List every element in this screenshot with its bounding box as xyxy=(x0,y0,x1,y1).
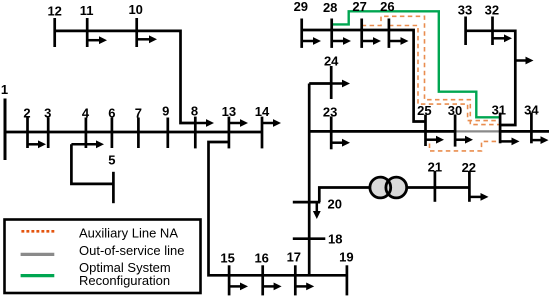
svg-text:19: 19 xyxy=(339,250,353,265)
svg-text:Out-of-service line: Out-of-service line xyxy=(79,243,184,258)
svg-text:Auxiliary Line NA: Auxiliary Line NA xyxy=(79,226,178,241)
svg-text:3: 3 xyxy=(44,106,51,121)
svg-text:33: 33 xyxy=(458,3,472,18)
svg-text:11: 11 xyxy=(80,3,94,18)
svg-text:18: 18 xyxy=(328,232,342,247)
svg-text:29: 29 xyxy=(294,0,308,14)
svg-text:7: 7 xyxy=(135,106,142,121)
svg-text:27: 27 xyxy=(352,0,366,14)
svg-text:31: 31 xyxy=(492,103,506,118)
svg-text:26: 26 xyxy=(380,0,394,14)
svg-text:1: 1 xyxy=(1,82,8,97)
svg-text:13: 13 xyxy=(222,104,236,119)
svg-text:20: 20 xyxy=(328,196,342,211)
svg-text:9: 9 xyxy=(162,104,169,119)
svg-text:Reconfiguration: Reconfiguration xyxy=(79,273,170,288)
svg-text:32: 32 xyxy=(485,3,499,18)
svg-text:21: 21 xyxy=(428,160,442,175)
svg-text:15: 15 xyxy=(220,251,234,266)
svg-text:4: 4 xyxy=(82,106,90,121)
svg-text:28: 28 xyxy=(323,0,337,15)
svg-text:22: 22 xyxy=(462,160,476,175)
svg-text:25: 25 xyxy=(417,103,431,118)
svg-text:5: 5 xyxy=(108,153,115,168)
svg-text:10: 10 xyxy=(128,2,142,17)
svg-text:6: 6 xyxy=(108,106,115,121)
svg-text:12: 12 xyxy=(47,4,61,19)
svg-text:34: 34 xyxy=(524,103,539,118)
svg-text:24: 24 xyxy=(324,54,339,69)
svg-text:17: 17 xyxy=(287,250,301,265)
svg-text:30: 30 xyxy=(448,103,462,118)
svg-text:23: 23 xyxy=(323,105,337,120)
svg-text:16: 16 xyxy=(254,251,268,266)
svg-text:8: 8 xyxy=(191,104,198,119)
svg-text:14: 14 xyxy=(255,104,270,119)
svg-text:2: 2 xyxy=(23,106,30,121)
